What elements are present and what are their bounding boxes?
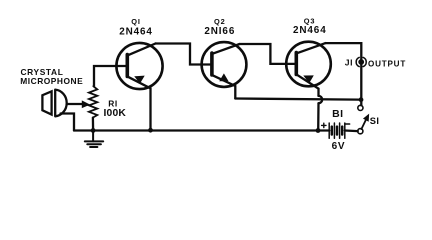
svg-text:JI: JI <box>345 58 353 68</box>
wire Q2 collector to Q3 base <box>240 44 296 64</box>
wire Q1 collector to Q2 base <box>156 44 212 65</box>
svg-text:2NI66: 2NI66 <box>204 26 235 37</box>
Q2 base bar <box>210 53 214 75</box>
wire Q3 collector to J1 <box>326 43 362 105</box>
transistor Q3 circle <box>286 42 331 87</box>
Q3 base bar <box>294 53 298 75</box>
Q3 emitter arrowhead (PNP) <box>304 76 313 82</box>
wire R1 top to Q1 base <box>94 66 126 86</box>
label S1 <box>370 116 380 126</box>
label Q3 2N464 <box>293 17 327 37</box>
Q3 emitter lead <box>297 75 319 96</box>
wire R1 bottom to rail <box>92 118 94 131</box>
bottom ground rail <box>74 129 358 132</box>
wire mic bottom to ground rail <box>61 114 75 131</box>
junction dot (pot/ground) <box>91 128 96 133</box>
junction dot Q3 emitter/rail/battery <box>316 128 321 133</box>
label R1 100K <box>104 99 127 120</box>
Q3 emitter to rail <box>317 103 320 130</box>
Q2 emitter lead <box>213 75 236 98</box>
Q3 emitter hop over Q2 line <box>319 96 323 103</box>
transistor Q1 circle <box>116 43 162 89</box>
Q1 collector lead <box>128 44 156 56</box>
wiper arrowhead into R1 <box>82 101 89 107</box>
svg-text:RI: RI <box>108 99 117 109</box>
label B1 6V <box>332 108 345 152</box>
svg-text:SI: SI <box>370 116 380 126</box>
Q1 emitter lead <box>128 77 151 130</box>
Q2 collector lead <box>213 44 240 54</box>
potentiometer R1 zigzag <box>89 86 97 117</box>
switch S1 upper contact <box>358 105 363 110</box>
Q2 emitter arrowhead (NPN, outward) <box>220 74 228 80</box>
switch S1 arm <box>361 118 366 129</box>
svg-text:6V: 6V <box>332 141 345 152</box>
crystal microphone MIC <box>42 90 66 117</box>
switch S1 arm arrowhead <box>364 115 369 122</box>
label Q1 2N464 <box>119 17 153 38</box>
Q1 base bar <box>126 55 130 77</box>
svg-text:OUTPUT: OUTPUT <box>368 59 406 68</box>
battery B1 plates <box>329 123 345 138</box>
svg-text:2N464: 2N464 <box>119 26 153 37</box>
ground symbol <box>85 130 103 147</box>
junction dot J1/S1/Q2-emitter <box>359 97 364 102</box>
label CRYSTAL MICROPHONE <box>20 67 83 86</box>
svg-text:QI: QI <box>131 17 141 26</box>
transistor Q2 circle <box>202 42 247 87</box>
wire Q2 emitter run to J1/S1 junction <box>235 99 358 100</box>
battery + sign <box>322 123 326 127</box>
jack J1 ring arcs <box>356 57 366 66</box>
Q3 collector lead <box>297 43 326 53</box>
jack J1 center dot <box>358 59 364 65</box>
wire mic top output to wiper <box>67 103 82 105</box>
svg-text:MICROPHONE: MICROPHONE <box>20 76 83 86</box>
battery - sign <box>346 123 350 125</box>
label J1 OUTPUT <box>345 58 406 69</box>
switch S1 lower contact <box>358 129 363 134</box>
Q1 emitter arrowhead (PNP) <box>135 76 144 83</box>
svg-text:2N464: 2N464 <box>293 25 327 36</box>
svg-text:BI: BI <box>332 108 343 120</box>
junction dot Q1 emitter/rail <box>148 128 153 133</box>
label Q2 2N166 <box>204 17 235 37</box>
svg-text:I00K: I00K <box>104 108 127 119</box>
